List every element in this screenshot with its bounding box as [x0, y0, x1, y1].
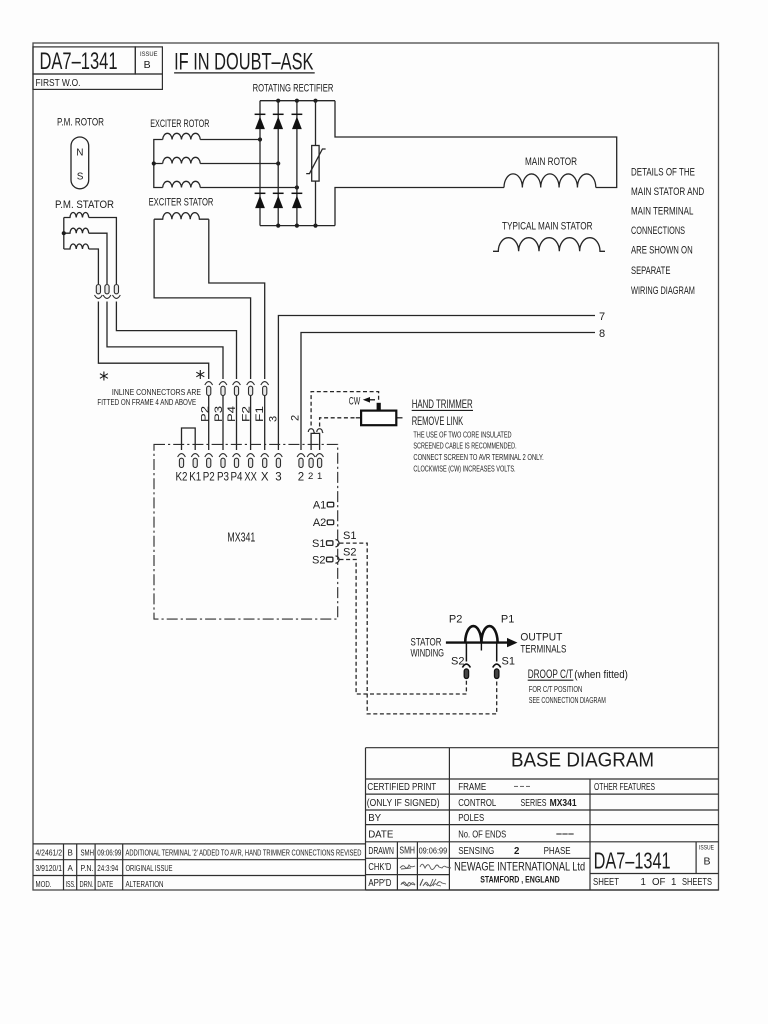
rectifier bottom bus: [260, 225, 335, 227]
svg-text:P3: P3: [213, 406, 225, 422]
hand trimmer wiper dashed wire: [311, 392, 379, 426]
terminal P2: [205, 454, 213, 468]
svg-text:1: 1: [641, 877, 646, 888]
node phase2-leg2: [276, 161, 280, 165]
svg-text:SENSING: SENSING: [458, 846, 494, 857]
wire w2 to terminal P3 run: [107, 302, 223, 380]
svg-text:ROTATING RECTIFIER: ROTATING RECTIFIER: [253, 83, 334, 95]
svg-text:3: 3: [275, 472, 281, 484]
svg-text:DATE: DATE: [97, 880, 113, 889]
svg-text:S2: S2: [343, 547, 356, 559]
wire phase1 to rectifier leg1: [200, 139, 260, 141]
svg-text:CONNECTIONS: CONNECTIONS: [631, 225, 685, 237]
wire w3 to terminal P2 run: [98, 302, 208, 380]
svg-text:IF IN DOUBT–ASK: IF IN DOUBT–ASK: [174, 48, 313, 75]
wire exciter stator left to F2: [154, 219, 251, 379]
first w.o. strip: [33, 74, 162, 89]
diode D3 upper: [292, 114, 303, 129]
hand trimmer right stub: [396, 417, 402, 419]
svg-text:EXCITER STATOR: EXCITER STATOR: [149, 197, 214, 209]
svg-text:OF: OF: [652, 877, 666, 888]
node phase3-leg3: [295, 185, 299, 189]
inline connector on wire P2: [95, 285, 103, 299]
terminal X: [261, 454, 269, 468]
terminal XX: [247, 454, 255, 468]
rectifier negative output wire: [335, 188, 504, 226]
svg-text:P2: P2: [199, 406, 211, 422]
CW arrow: [368, 399, 375, 401]
exciter rotor star junction dot: [152, 161, 156, 165]
svg-text:7: 7: [599, 311, 605, 323]
svg-text:XX: XX: [244, 472, 257, 484]
diode D1 upper: [255, 114, 266, 129]
svg-text:ISS.: ISS.: [66, 880, 76, 889]
svg-text:TERMINALS: TERMINALS: [520, 643, 566, 655]
p.m. stator star bus: [63, 218, 65, 250]
output arrowhead: [507, 638, 518, 647]
top bus junction dots: [276, 99, 280, 103]
svg-text:SMH: SMH: [81, 848, 95, 857]
svg-text:09:06:99: 09:06:99: [419, 847, 448, 856]
svg-text:A1: A1: [313, 500, 326, 512]
hand trimmer end dashed wire: [320, 418, 356, 427]
exciter rotor star bus wire: [154, 140, 163, 188]
svg-text:8: 8: [599, 328, 605, 340]
CT terminal S1 connector: [493, 664, 501, 678]
svg-text:(ONLY IF SIGNED): (ONLY IF SIGNED): [367, 798, 440, 809]
svg-text:HAND TRIMMER: HAND TRIMMER: [412, 397, 473, 411]
svg-text:24:3:94: 24:3:94: [97, 864, 118, 873]
svg-text:2: 2: [308, 471, 313, 482]
exciter stator winding: [154, 213, 209, 220]
K2-K1 link wire: [182, 428, 196, 450]
svg-text:P.N.: P.N.: [81, 864, 94, 873]
svg-text:FIRST W.O.: FIRST W.O.: [36, 78, 81, 89]
svg-text:MX341: MX341: [550, 798, 578, 809]
svg-text:P.M. ROTOR: P.M. ROTOR: [57, 117, 104, 129]
svg-text:P3: P3: [217, 472, 229, 484]
exciter rotor winding phase 3: [163, 181, 201, 187]
svg-text:2: 2: [290, 415, 302, 421]
rectifier leg 3: [296, 101, 298, 226]
svg-text:No. OF ENDS: No. OF ENDS: [458, 829, 506, 840]
wire P3 connector to AVR: [222, 396, 224, 450]
inline connector on terminal P3 wire: [219, 382, 227, 396]
svg-text:CHK'D: CHK'D: [368, 862, 391, 873]
rectifier positive output wire: [335, 101, 617, 188]
inline connector on wire P4: [113, 285, 121, 299]
svg-text:S2: S2: [451, 655, 464, 667]
svg-text:MAIN ROTOR: MAIN ROTOR: [525, 156, 577, 168]
svg-text:K1: K1: [189, 472, 201, 484]
svg-text:DATE: DATE: [368, 829, 394, 840]
varistor body: [312, 146, 319, 182]
svg-text:MAIN TERMINAL: MAIN TERMINAL: [631, 206, 693, 218]
svg-text:CONNECT SCREEN TO AVR TERMINAL: CONNECT SCREEN TO AVR TERMINAL 2 ONLY.: [413, 452, 543, 462]
terminal 1: [316, 454, 324, 468]
wire phase3 to rectifier leg3: [200, 187, 297, 189]
diode D6 lower: [292, 193, 303, 208]
svg-text:A: A: [68, 864, 74, 873]
svg-text:S2: S2: [312, 554, 325, 566]
svg-text:THE USE OF TWO CORE INSULATED: THE USE OF TWO CORE INSULATED: [413, 429, 511, 439]
svg-text:2: 2: [298, 472, 304, 484]
CT centre tick: [480, 643, 482, 651]
varistor branch wire: [315, 101, 317, 226]
svg-text:A2: A2: [313, 517, 326, 529]
wire w1 to terminal P4 run: [116, 302, 236, 380]
svg-text:S1: S1: [502, 655, 515, 667]
svg-text:P4: P4: [226, 406, 238, 422]
link socket on terminal 1: [317, 429, 323, 433]
svg-text:DRAWN: DRAWN: [368, 846, 394, 857]
inline connector on wire F1: [261, 382, 269, 396]
exciter rotor winding phase 2: [163, 157, 201, 163]
svg-text:P2: P2: [449, 613, 462, 625]
svg-text:NEWAGE INTERNATIONAL Ltd: NEWAGE INTERNATIONAL Ltd: [454, 859, 585, 873]
removable link wire: [311, 433, 320, 450]
revision table grid: [33, 844, 366, 890]
terminal P3: [219, 454, 227, 468]
svg-text:STAMFORD , ENGLAND: STAMFORD , ENGLAND: [480, 874, 560, 885]
svg-text:X: X: [261, 472, 269, 484]
wire pm stator w1 down: [89, 218, 117, 285]
svg-text:WIRING DIAGRAM: WIRING DIAGRAM: [631, 285, 695, 297]
p.m. stator winding 2: [64, 228, 89, 233]
svg-text:P1: P1: [501, 613, 514, 625]
wire P2 connector to AVR: [208, 396, 210, 450]
wire exciter stator right to F1: [209, 219, 265, 379]
rectifier leg 1: [259, 101, 261, 226]
svg-text:S1: S1: [343, 530, 356, 542]
svg-text:F1: F1: [254, 406, 266, 422]
svg-text:CERTIFIED PRINT: CERTIFIED PRINT: [367, 782, 436, 793]
svg-text:K2: K2: [176, 472, 188, 484]
svg-text:F2: F2: [241, 406, 253, 422]
issue box top left: [135, 47, 162, 74]
inline connector on wire F2: [247, 382, 255, 396]
terminal 2: [297, 454, 305, 468]
p.m. stator junction dot: [62, 231, 66, 235]
svg-text:OUTPUT: OUTPUT: [520, 631, 562, 643]
title box DA7-1341 (top left): [33, 47, 135, 74]
CT S1 lead: [496, 643, 498, 662]
svg-text:(when fitted): (when fitted): [574, 669, 628, 681]
main rotor winding: [504, 174, 596, 188]
svg-text:DA7–1341: DA7–1341: [594, 847, 671, 873]
P.M. rotor magnet capsule: [71, 137, 89, 189]
svg-text:DROOP C/T: DROOP C/T: [528, 667, 574, 681]
svg-text:SEPARATE: SEPARATE: [631, 265, 670, 277]
svg-text:BASE DIAGRAM: BASE DIAGRAM: [511, 750, 654, 772]
svg-text:SCREENED CABLE IS RECOMMENDED.: SCREENED CABLE IS RECOMMENDED.: [413, 441, 516, 451]
svg-text:SERIES: SERIES: [521, 798, 547, 809]
svg-text:DETAILS OF THE: DETAILS OF THE: [631, 167, 695, 179]
hand trimmer left stub: [356, 417, 361, 419]
svg-text:WINDING: WINDING: [411, 648, 445, 660]
svg-text:PHASE: PHASE: [544, 846, 571, 857]
wire S2 sensing dashed: [340, 560, 467, 695]
svg-text:B: B: [68, 848, 73, 857]
svg-text:ARE SHOWN ON: ARE SHOWN ON: [631, 245, 693, 257]
svg-text:FITTED ON FRAME 4 AND ABOVE: FITTED ON FRAME 4 AND ABOVE: [97, 397, 196, 407]
wire F1 connector to AVR: [264, 396, 266, 450]
svg-text:P2: P2: [203, 472, 215, 484]
diode D2 upper: [273, 114, 284, 129]
p.m. stator winding 3: [64, 244, 89, 249]
wire F2 connector to AVR: [250, 396, 252, 450]
rectifier top bus: [260, 100, 335, 102]
svg-text:3: 3: [268, 416, 280, 422]
diode D5 lower: [273, 193, 284, 208]
svg-text:1: 1: [671, 877, 676, 888]
svg-text:TYPICAL MAIN STATOR: TYPICAL MAIN STATOR: [502, 221, 593, 233]
asterisk left: [100, 372, 108, 381]
stator output wire: [446, 641, 509, 643]
svg-text:S: S: [77, 172, 84, 183]
svg-text:N: N: [76, 148, 83, 159]
svg-text:–––: –––: [556, 829, 575, 840]
chk'd signature scribbles: [400, 864, 451, 886]
exciter rotor winding phase 1: [163, 133, 201, 139]
CT S2 lead: [465, 643, 467, 662]
wire P4 connector to AVR: [236, 396, 238, 450]
bottom bus junction dots: [276, 224, 280, 228]
svg-text:1: 1: [317, 471, 322, 482]
svg-text:S1: S1: [312, 538, 325, 550]
svg-text:FOR C/T POSITION: FOR C/T POSITION: [529, 684, 583, 694]
p.m. stator winding 1: [64, 212, 89, 217]
wire pm stator w3 down: [89, 249, 99, 284]
svg-text:BY: BY: [368, 813, 381, 824]
app'd signature scribbles: [401, 879, 441, 886]
terminal K2: [178, 454, 186, 468]
terminal P4: [233, 454, 241, 468]
title block grid: [366, 748, 719, 890]
CT terminal S2 connector: [462, 664, 470, 678]
wire 7: [278, 316, 595, 451]
inline connector on terminal P2 wire: [205, 382, 213, 396]
svg-text:B: B: [704, 856, 711, 868]
svg-text:P.M. STATOR: P.M. STATOR: [55, 199, 114, 211]
svg-text:SHEETS: SHEETS: [682, 877, 712, 888]
terminal K1: [191, 454, 199, 468]
svg-text:MOD.: MOD.: [36, 880, 52, 889]
inline connector on terminal P4 wire: [233, 382, 241, 396]
svg-text:ADDITIONAL TERMINAL '2' ADDED: ADDITIONAL TERMINAL '2' ADDED TO AVR, HA…: [126, 848, 362, 857]
svg-text:MX341: MX341: [227, 530, 255, 544]
svg-text:POLES: POLES: [458, 813, 484, 824]
node phase1-leg1: [258, 137, 262, 141]
svg-text:SMH: SMH: [399, 846, 415, 857]
svg-text:ORIGINAL ISSUE: ORIGINAL ISSUE: [126, 864, 173, 873]
svg-text:FRAME: FRAME: [458, 782, 486, 793]
svg-text:SHEET: SHEET: [593, 877, 619, 888]
svg-text:OTHER FEATURES: OTHER FEATURES: [594, 782, 655, 793]
svg-text:P4: P4: [231, 472, 244, 484]
svg-text:CONTROL: CONTROL: [458, 798, 496, 809]
hand trimmer wiper: [377, 403, 381, 411]
svg-text:INLINE CONNECTORS ARE: INLINE CONNECTORS ARE: [112, 387, 201, 397]
svg-text:– – –: – – –: [514, 781, 530, 792]
terminal 2 aux: [307, 454, 315, 468]
border frame: [33, 43, 719, 890]
svg-text:REMOVE LINK: REMOVE LINK: [412, 414, 464, 428]
svg-text:4/2461/2: 4/2461/2: [36, 848, 63, 857]
svg-text:SEE CONNECTION DIAGRAM: SEE CONNECTION DIAGRAM: [529, 695, 606, 705]
wire 8: [301, 333, 595, 451]
svg-text:3/9120/1: 3/9120/1: [36, 864, 63, 873]
svg-text:2: 2: [514, 846, 519, 857]
svg-text:EXCITER ROTOR: EXCITER ROTOR: [150, 118, 209, 130]
hand trimmer body: [361, 411, 396, 426]
link socket on terminal 2 aux: [308, 429, 314, 433]
terminal 3: [275, 454, 283, 468]
inline connector on wire P3: [103, 285, 111, 299]
typical main stator winding: [493, 238, 605, 252]
diode D4 lower: [255, 193, 266, 208]
svg-text:CLOCKWISE (CW) INCREASES VOLTS: CLOCKWISE (CW) INCREASES VOLTS.: [413, 463, 515, 473]
rectifier leg 2: [277, 101, 279, 226]
droop CT primary humps: [465, 626, 497, 643]
svg-text:ISSUE: ISSUE: [699, 844, 714, 851]
svg-text:CW: CW: [349, 395, 361, 407]
varistor diagonal stroke: [306, 149, 325, 174]
wire S1 sensing dashed: [340, 543, 497, 714]
AVR box MX341: [154, 444, 338, 619]
wire phase2 to rectifier leg2: [200, 163, 278, 165]
svg-text:DRN.: DRN.: [80, 880, 94, 889]
svg-text:ALTERATION: ALTERATION: [126, 880, 164, 889]
wire pm stator w2 down: [89, 233, 107, 284]
asterisk right: [196, 370, 204, 379]
svg-text:B: B: [144, 59, 151, 71]
svg-text:DA7–1341: DA7–1341: [40, 48, 118, 75]
svg-text:MAIN STATOR AND: MAIN STATOR AND: [631, 186, 704, 198]
svg-text:09:06:99: 09:06:99: [97, 848, 121, 857]
svg-text:APP'D: APP'D: [368, 878, 391, 889]
svg-text:ISSUE: ISSUE: [140, 51, 158, 58]
